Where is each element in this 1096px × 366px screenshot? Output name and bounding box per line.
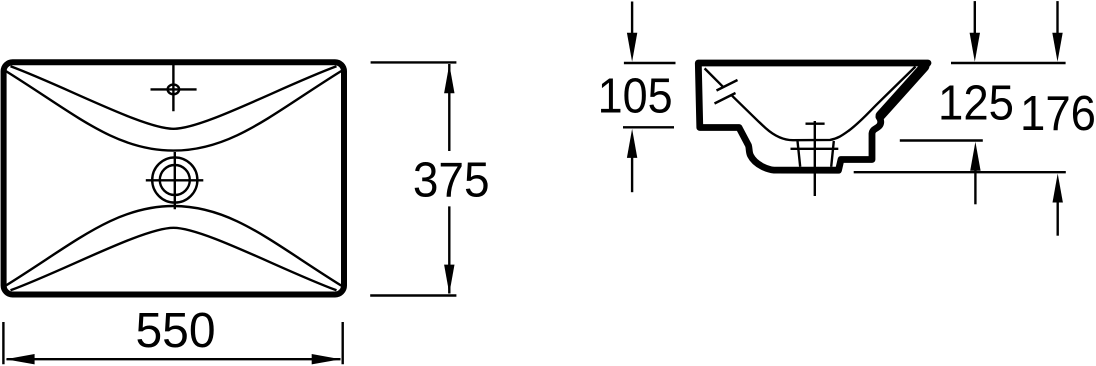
svg-text:375: 375: [413, 153, 490, 208]
svg-text:105: 105: [598, 69, 673, 124]
svg-text:550: 550: [135, 303, 215, 358]
svg-text:176: 176: [1020, 86, 1096, 141]
svg-text:125: 125: [938, 75, 1014, 130]
